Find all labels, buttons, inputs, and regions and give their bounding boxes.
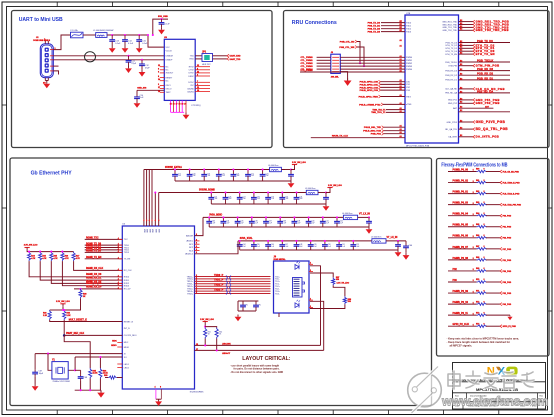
net label P32_PGD	[500, 292, 502, 295]
svg-text:.1uF: .1uF	[326, 222, 329, 224]
svg-text:5: 5	[473, 247, 474, 249]
net label PGLB_GPIO_CS1	[379, 83, 381, 86]
svg-text:A1: A1	[400, 85, 402, 88]
svg-text:PGMB_P0_05: PGMB_P0_05	[453, 224, 469, 227]
svg-text:A1: A1	[400, 135, 402, 138]
svg-text:R69: R69	[476, 268, 479, 270]
capacitor C42	[336, 217, 338, 221]
capacitor C13	[111, 35, 113, 40]
net label P21_PGD	[500, 258, 502, 261]
power 3.3V_SW_LDO row A	[292, 164, 297, 166]
svg-text:18: 18	[179, 104, 181, 106]
wire LEDACT	[195, 349, 324, 351]
net label UART_RXD	[227, 54, 229, 57]
capacitor C51	[338, 241, 340, 245]
wire PGMB_P0_00 left	[448, 171, 477, 173]
svg-text:A1: A1	[400, 125, 402, 128]
svg-text:GND_P2V5_PGB: GND_P2V5_PGB	[476, 120, 506, 124]
net label BD_QA_TRL_PGB	[473, 128, 475, 131]
resistor R23 4.7K	[28, 252, 31, 261]
svg-text:PWM4: PWM4	[406, 69, 413, 71]
wire PGMB_P0_04 right	[486, 215, 500, 217]
svg-text:.1uF: .1uF	[222, 175, 225, 177]
svg-text:UART to Mini USB: UART to Mini USB	[19, 17, 63, 23]
svg-text:3.3V_SW_LDO: 3.3V_SW_LDO	[56, 301, 70, 303]
svg-text:JP1: JP1	[202, 51, 207, 53]
watermark circle logo	[408, 367, 442, 414]
svg-text:.1uF: .1uF	[342, 246, 345, 248]
wire VDDIO pin	[154, 193, 156, 227]
svg-text:CTS#: CTS#	[189, 70, 195, 72]
net label FLB_TXD0_E_PGD	[500, 181, 502, 184]
svg-text:FLB_TXD0_E_PGD: FLB_TXD0_E_PGD	[503, 182, 521, 184]
svg-text:R51: R51	[208, 332, 211, 334]
svg-text:R72: R72	[476, 301, 479, 303]
ground under C11	[125, 66, 132, 73]
svg-text:B2: B2	[460, 53, 462, 55]
svg-text:.1uF: .1uF	[226, 222, 229, 224]
wire TRD6	[195, 290, 271, 292]
svg-text:5: 5	[473, 324, 474, 326]
title block frame	[453, 363, 546, 410]
svg-text:PGMB_P0_10: PGMB_P0_10	[453, 301, 469, 304]
svg-text:P33: P33	[453, 279, 458, 282]
wire PGMB_P0_07 right	[486, 248, 500, 250]
svg-text:LED1: LED1	[124, 364, 130, 366]
svg-text:PWM1: PWM1	[406, 60, 413, 62]
wire RXD	[195, 58, 202, 60]
ground under C67	[32, 384, 39, 391]
crystal bottom rail	[75, 389, 101, 391]
svg-text:PGMB_P0_01: PGMB_P0_01	[453, 191, 469, 194]
svg-text:21: 21	[197, 87, 199, 89]
junction rail up	[147, 34, 149, 36]
svg-text:www.elecfans.com: www.elecfans.com	[441, 395, 548, 409]
capacitor C43	[368, 217, 370, 221]
net label ETH_TX_D0	[473, 50, 475, 53]
svg-text:5: 5	[473, 291, 474, 293]
svg-text:A1: A1	[400, 88, 402, 91]
wire PGLB_GPIO_CS1	[381, 83, 406, 85]
svg-text:R52: R52	[219, 332, 222, 334]
wire P32 right	[486, 270, 500, 272]
resistor R57 330	[332, 277, 335, 285]
wire rail to VCC pin	[148, 35, 164, 47]
wire J3 to ground	[340, 72, 347, 78]
wire L6 out	[281, 169, 291, 171]
connector J2 CON5 USB MINI B	[40, 44, 53, 78]
svg-text:VT_LX_IN: VT_LX_IN	[359, 213, 370, 215]
svg-text:A1: A1	[400, 67, 402, 70]
svg-text:3V3SW_EXTRA: 3V3SW_EXTRA	[165, 166, 182, 169]
svg-text:0.1uF: 0.1uF	[128, 43, 134, 45]
svg-text:PGB_CTL_RD: PGB_CTL_RD	[340, 41, 355, 43]
svg-text:P31_PGD: P31_PGD	[503, 227, 512, 229]
svg-text:PMAT_REF_CLK: PMAT_REF_CLK	[66, 332, 85, 335]
capacitor C19	[203, 170, 205, 175]
svg-text:C48: C48	[300, 244, 303, 246]
capacitor C29	[267, 193, 269, 198]
svg-text:RGMII_RX_D1: RGMII_RX_D1	[86, 278, 102, 280]
svg-text:A1: A1	[400, 110, 402, 113]
wire C67 down	[34, 376, 36, 384]
wire L3 out	[318, 192, 326, 194]
svg-text:MULT_RESET_K: MULT_RESET_K	[69, 319, 87, 321]
svg-text:RGMII_RX_D0: RGMII_RX_D0	[86, 274, 102, 276]
wire PG8_TX_D1	[381, 25, 405, 27]
wire VDD pin	[146, 170, 148, 227]
wire R23 net	[29, 261, 122, 277]
wire VBUS pin1	[53, 35, 70, 50]
svg-text:B2: B2	[460, 41, 462, 43]
wire CTL_PWM3 right	[340, 65, 405, 67]
svg-text:B2: B2	[460, 60, 462, 62]
wire GND_P52_PGB	[459, 102, 474, 104]
svg-text:3V3A_XTAL: 3V3A_XTAL	[240, 237, 253, 240]
svg-text:C26: C26	[229, 196, 232, 198]
wire RGMII_TX_D3	[85, 251, 123, 253]
svg-text:MDC: MDC	[112, 341, 117, 343]
svg-text:0: 0	[484, 213, 485, 215]
svg-text:.1uF: .1uF	[297, 222, 300, 224]
svg-text:DTR#: DTR#	[189, 73, 195, 75]
svg-text:12.1K: 12.1K	[93, 373, 99, 375]
J2 shield ground wire	[45, 80, 48, 82]
resistor R66	[477, 237, 488, 240]
svg-text:A1: A1	[400, 23, 402, 26]
net label FLB_TX11_PW_PGD	[500, 203, 502, 206]
svg-text:R68: R68	[476, 257, 479, 259]
net label PGLB_GPIO_TRIG	[379, 95, 381, 98]
svg-text:VCC: VCC	[166, 47, 171, 49]
svg-text:47pF: 47pF	[145, 68, 150, 70]
capacitor C11 on D-	[128, 56, 130, 61]
resistor R52	[215, 328, 218, 339]
svg-text:nTMS: nTMS	[406, 104, 412, 106]
svg-text:C19: C19	[207, 173, 210, 175]
wire 5V rail	[107, 34, 148, 36]
svg-text:C27: C27	[243, 196, 246, 198]
svg-text:GND_TD1_TRD: GND_TD1_TRD	[442, 27, 457, 29]
svg-text:6: 6	[196, 243, 197, 245]
svg-text:- Keep trace length match betw: - Keep trace length match between link m…	[447, 340, 511, 344]
svg-text:UART_TXD: UART_TXD	[230, 58, 241, 61]
inductor L4	[343, 215, 357, 219]
wire J4 LEDY cathode	[310, 301, 324, 350]
wire mid power node	[63, 307, 81, 310]
connector J4 RJ45	[274, 261, 310, 313]
svg-text:B2: B2	[460, 102, 462, 104]
net label GPIO_P2_PGD	[500, 325, 502, 328]
U3 left pin stubs	[160, 66, 165, 68]
svg-text:P32: P32	[453, 268, 458, 271]
capacitor C15	[138, 35, 140, 40]
svg-text:4: 4	[146, 219, 147, 222]
resistor R35	[89, 368, 92, 379]
svg-text:PGMB_P0_08: PGMB_P0_08	[453, 257, 469, 260]
svg-text:ETH_TX_D2: ETH_TX_D2	[446, 45, 458, 47]
svg-text:PGLB_SSL_TXD: PGLB_SSL_TXD	[364, 127, 382, 129]
wire rail C drop	[195, 217, 204, 235]
svg-text:B2: B2	[460, 98, 462, 100]
svg-text:- Keep nets via links close to: - Keep nets via links close to MPC5777M …	[447, 336, 520, 340]
svg-text:B2: B2	[460, 26, 462, 28]
svg-text:U7B: U7B	[406, 13, 411, 15]
jumper JP1	[202, 54, 213, 62]
svg-text:B2: B2	[460, 78, 462, 80]
svg-text:3.3V_SW_LDO: 3.3V_SW_LDO	[328, 185, 342, 187]
U3 bottom gnd pins	[170, 100, 172, 112]
svg-text:B2: B2	[460, 47, 462, 49]
svg-text:.1uF: .1uF	[314, 246, 317, 248]
svg-text:PGB_RX_D1: PGB_RX_D1	[477, 76, 493, 80]
svg-text:B2: B2	[460, 128, 462, 130]
svg-text:- Do not disconnect to other s: - Do not disconnect to other signals sol…	[230, 371, 283, 374]
svg-text:R71: R71	[476, 290, 479, 292]
net label PGB_CTL_WR	[355, 46, 357, 49]
svg-text:3: 3	[158, 84, 159, 86]
svg-text:CTL_PWM3: CTL_PWM3	[301, 66, 314, 68]
wire PGMB_P0_10 right	[486, 303, 500, 305]
svg-text:C37: C37	[269, 221, 272, 223]
svg-text:PGLB_GPIO_CS0: PGLB_GPIO_CS0	[360, 82, 379, 84]
svg-text:RX_DV: RX_DV	[124, 289, 131, 291]
resistor R71	[477, 292, 488, 295]
net label P30_PGD	[500, 214, 502, 217]
svg-text:.1uF: .1uF	[269, 222, 272, 224]
net label FLB_CB_M2_PGD	[500, 170, 502, 173]
row A bottom rail	[175, 180, 291, 182]
LED green in J4	[295, 265, 299, 270]
wire CTL_PWM2 right	[340, 62, 405, 64]
svg-text:3V3SW_RGMII: 3V3SW_RGMII	[199, 190, 215, 192]
svg-text:TRD3_P: TRD3_P	[214, 288, 224, 291]
svg-text:2.2K: 2.2K	[43, 315, 48, 317]
capacitor C27	[239, 193, 241, 198]
svg-text:0: 0	[484, 323, 485, 325]
svg-text:PGLB_nTMSE_PT13: PGLB_nTMSE_PT13	[359, 104, 381, 106]
svg-text:PG8_TX_D3: PG8_TX_D3	[368, 31, 381, 33]
svg-text:5: 5	[473, 269, 474, 271]
svg-text:C47: C47	[285, 244, 288, 246]
svg-text:.1uF: .1uF	[241, 222, 244, 224]
svg-text:4: 4	[152, 219, 153, 222]
resistor R60	[477, 170, 488, 173]
capacitor C30	[281, 193, 283, 198]
svg-text:0: 0	[484, 279, 485, 281]
svg-text:PGMB_P0_06: PGMB_P0_06	[453, 235, 469, 238]
capacitor C44	[239, 241, 241, 245]
svg-text:C44: C44	[243, 244, 246, 246]
svg-text:RGMII_RX_CLK: RGMII_RX_CLK	[86, 268, 103, 270]
svg-text:.1uF: .1uF	[214, 198, 217, 200]
svg-text:R64: R64	[476, 212, 479, 215]
net label GND_RD2_TRD_PGB	[473, 23, 475, 26]
svg-text:.1uF: .1uF	[207, 175, 210, 177]
svg-text:A1: A1	[400, 107, 402, 110]
capacitor C26	[225, 193, 227, 198]
svg-text:C23: C23	[266, 173, 269, 175]
resistor R51	[204, 328, 207, 339]
wire RGMII_TX_D1	[85, 247, 123, 249]
capacitor C17	[174, 170, 176, 175]
svg-text:C18: C18	[193, 173, 196, 175]
net label GND_P52_PGB	[473, 102, 475, 105]
svg-text:2.2K: 2.2K	[67, 315, 72, 317]
svg-text:CBUS1: CBUS1	[187, 91, 195, 93]
svg-text:LED2: LED2	[124, 367, 130, 369]
svg-text:A1: A1	[400, 82, 402, 85]
wire PGMB_P0_02 left	[448, 182, 477, 184]
wire PG8_TX_D2	[381, 28, 405, 30]
row B bottom rail	[211, 203, 326, 205]
svg-text:RGMII_TX_D3: RGMII_TX_D3	[86, 251, 102, 253]
net label P43_PGD	[500, 303, 502, 306]
wire GND_TD1_TRD_PGB	[459, 26, 474, 28]
svg-text:6: 6	[196, 246, 197, 248]
capacitor C68	[75, 369, 81, 371]
svg-text:L4 600Ohm: L4 600Ohm	[342, 213, 353, 215]
svg-text:C36: C36	[255, 221, 258, 223]
wire TRD7	[195, 293, 271, 295]
svg-text:PGB_CTL_WR: PGB_CTL_WR	[339, 47, 354, 49]
svg-text:17: 17	[176, 104, 178, 106]
ground row D	[395, 250, 402, 257]
svg-text:0: 0	[484, 202, 485, 204]
wire DA_INTR_PGB	[459, 136, 474, 138]
wire TEST to C10	[137, 89, 164, 91]
wire PGMB_P0_04 left	[448, 215, 477, 217]
wire crystal left	[48, 354, 52, 371]
wire PGMB_P0_10 left	[448, 303, 477, 305]
svg-text:all MPC57 signals.: all MPC57 signals.	[450, 344, 473, 348]
svg-text:47pF: 47pF	[132, 63, 137, 65]
inductor L3	[306, 190, 318, 194]
svg-text:GND_TD2_TRD: GND_TD2_TRD	[442, 30, 457, 32]
J2 pin5 wire to gnd	[53, 71, 58, 75]
ground under C15	[136, 46, 143, 53]
net label P23_PGD	[500, 236, 502, 239]
PHY bottom collect wire	[156, 398, 161, 400]
wire TRD5	[195, 288, 271, 290]
svg-text:P36_PGD: P36_PGD	[503, 271, 512, 273]
wire CTL_PWM3 left	[317, 65, 331, 67]
svg-text:A1: A1	[400, 58, 402, 61]
svg-text:TXD0: TXD0	[406, 22, 412, 24]
wire R26 net	[62, 261, 122, 286]
svg-text:.1uF: .1uF	[257, 198, 260, 200]
wire PGLB_GPIO_CS2	[381, 86, 406, 88]
svg-text:P23_PGD: P23_PGD	[503, 238, 512, 240]
ground row A	[288, 181, 295, 188]
wire VDD pin	[151, 170, 153, 227]
wire R25 net	[51, 261, 122, 283]
svg-text:GND_P52_PGB: GND_P52_PGB	[476, 101, 500, 105]
svg-text:3.3V_VR_LDO: 3.3V_VR_LDO	[337, 283, 350, 285]
svg-text:.1uF: .1uF	[257, 246, 260, 248]
net label PGLB_GPIO_CS0	[379, 80, 381, 83]
wire PMAT_REF_CLK	[64, 334, 122, 336]
wire PGB_CTL_WR	[357, 47, 364, 66]
svg-text:A1: A1	[400, 29, 402, 32]
stub LED1	[117, 363, 122, 365]
junction R34 top	[63, 309, 65, 311]
capacitor C36	[251, 217, 253, 221]
capacitor C50	[324, 241, 326, 245]
svg-text:C28: C28	[257, 196, 260, 198]
svg-text:PGB_RX_D2: PGB_RX_D2	[477, 72, 493, 76]
svg-text:4: 4	[155, 219, 156, 222]
svg-text:GND_SIG: GND_SIG	[137, 88, 146, 90]
capacitor C45	[253, 241, 255, 245]
svg-text:RXD0: RXD0	[124, 277, 130, 279]
power 3.3V_SW_LDO left bank	[25, 247, 30, 249]
svg-text:RGMII_RX_DV: RGMII_RX_DV	[86, 286, 102, 288]
svg-text:CTL_PWM2: CTL_PWM2	[301, 63, 314, 65]
svg-text:0: 0	[484, 224, 485, 226]
wire GND_RD1_TRD_PGB	[459, 21, 474, 23]
svg-text:DA_INTR: DA_INTR	[448, 136, 457, 139]
svg-text:1: 1	[310, 263, 311, 265]
ground row C	[366, 227, 373, 234]
wire GND_TD2_TRD_PGB	[459, 29, 474, 31]
svg-text:FLB_TX11_PW_PGD: FLB_TX11_PW_PGD	[503, 205, 522, 207]
wire PGB_TX_D3	[459, 42, 511, 44]
svg-text:RXD3: RXD3	[124, 286, 130, 288]
net label GND_P51_PGB	[473, 98, 475, 101]
resistor R73	[477, 314, 488, 317]
svg-text:GND_RD1_TRD: GND_RD1_TRD	[442, 21, 457, 23]
svg-text:L6 600Ohm: L6 600Ohm	[268, 165, 279, 167]
svg-text:.1uF: .1uF	[193, 175, 196, 177]
svg-text:TXC: TXC	[124, 239, 129, 241]
capacitor C18	[189, 170, 191, 175]
svg-text:C30: C30	[285, 196, 288, 198]
svg-text:0: 0	[484, 312, 485, 314]
svg-text:GND_RD2_TRD: GND_RD2_TRD	[442, 24, 457, 26]
svg-text:.1uF: .1uF	[243, 246, 246, 248]
svg-text:PG8_TX_D0: PG8_TX_D0	[368, 22, 381, 24]
svg-text:4.7K: 4.7K	[65, 257, 70, 260]
wire power tap	[153, 19, 168, 35]
wire CTL_PWM1 right	[340, 59, 405, 61]
svg-text:C50: C50	[328, 244, 331, 246]
connector J3	[331, 54, 341, 73]
wire USB D-	[53, 55, 164, 57]
svg-text:TRD3-: TRD3-	[187, 293, 193, 295]
net label PGLB_SSO_VOX	[382, 129, 384, 132]
wire J4 LEDG anode	[310, 273, 333, 277]
svg-text:6: 6	[196, 252, 197, 254]
svg-text:TRD0_P: TRD0_P	[214, 274, 224, 277]
wire ETH_TX_D2	[459, 44, 474, 46]
svg-text:400_MIL: 400_MIL	[331, 75, 340, 78]
svg-text:31: 31	[197, 71, 199, 73]
svg-text:18pF: 18pF	[39, 373, 44, 375]
wire GPIO_P2_CLK right	[486, 325, 500, 327]
svg-text:A1: A1	[400, 128, 402, 131]
wire P33 right	[486, 281, 500, 283]
wire CTL_PWM1 left	[317, 59, 331, 61]
op-amp U5 PHY IC body	[122, 226, 194, 389]
svg-text:19: 19	[181, 104, 183, 106]
svg-text:6: 6	[196, 249, 197, 251]
wire PGMB_P0_03 right	[486, 204, 500, 206]
svg-text:PGB_TXCLK: PGB_TXCLK	[445, 62, 457, 64]
resistor R64	[477, 214, 488, 217]
svg-text:A1: A1	[400, 55, 402, 58]
svg-text:R50: R50	[104, 375, 107, 377]
